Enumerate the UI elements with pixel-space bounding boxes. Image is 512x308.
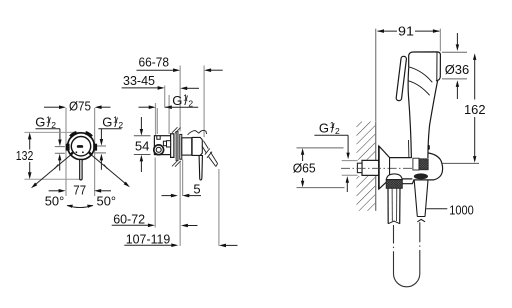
lever handle (front view, pointing down) [80,159,82,180]
left cone [388,188,400,223]
tick on left diagonal [55,164,59,168]
spray plate [396,56,407,101]
svg-text:91: 91 [398,23,414,38]
black tabs on circle [80,145,82,147]
handle left edge [408,68,411,158]
svg-text:162: 162 [464,102,486,117]
svg-text:54: 54 [135,138,150,153]
label G1/2 upper-left [35,114,61,146]
svg-text:132: 132 [16,148,34,163]
svg-text:5: 5 [193,182,200,197]
gray extension lines [155,66,219,247]
svg-text:107-119: 107-119 [126,232,171,247]
small wedges at diagonal roots [71,152,73,155]
holder arm body fill [390,156,443,183]
dimension 91 [375,29,377,122]
phantom lever swung position [202,141,218,167]
mixer escutcheon outer circle [68,133,95,160]
diagonal 50-degree lines [34,155,71,186]
dimension O75 [44,106,111,108]
two small dots [76,151,78,153]
black side ports [66,144,70,151]
head outline [409,52,441,81]
wall hatch [357,122,376,160]
hose nut with dome [386,174,402,180]
dimension 162 [474,60,476,100]
port tick marks left [55,146,106,153]
holder arm edges [390,153,443,184]
wall surface line [375,122,377,211]
dark lens under holder [414,173,428,179]
svg-text:Ø75: Ø75 [69,98,91,113]
wall hatch marks above plate [172,127,181,167]
handle right edge [428,80,438,158]
label G1/2 right view [319,120,340,136]
dimension O65 [297,148,345,188]
handle cap [192,137,202,155]
port arrows up (below) [58,154,61,161]
center dash on cap [77,145,83,148]
svg-text:50°: 50° [97,194,117,209]
holder step block [413,158,419,170]
dimension 77 [49,190,111,192]
gray stubs to pipe [342,161,358,176]
outlet flange [379,146,390,189]
in-wall supply pipe [362,160,379,175]
50 degree arc with arrows [67,206,92,208]
label G1/2 upper-right [98,114,123,145]
holder knurl [419,159,428,170]
centerline [341,167,413,169]
tick on right diagonal [104,164,108,168]
shower silhouette (head + handle) [408,52,440,158]
svg-text:Ø65: Ø65 [293,160,316,175]
svg-text:Ø36: Ø36 [445,62,470,77]
svg-text:77: 77 [73,183,86,198]
svg-text:33-45: 33-45 [123,73,155,88]
extension line right of O75/77 [94,108,96,196]
dimension 132 [24,132,79,179]
dimension O36 [456,33,458,45]
svg-text:60-72: 60-72 [113,212,145,227]
wall plate [176,131,178,160]
label 1000 [426,208,447,210]
lever side view pointing down [199,156,202,181]
inner circle (cap) [71,137,90,156]
escutcheon side view [180,134,182,159]
dimension 5 [162,195,172,197]
valve body cylinder [182,138,192,155]
rough-in valve body [154,134,174,158]
hose U-bend [394,222,420,287]
head end cap line [436,52,438,80]
neck curves [409,67,433,83]
dimension 54 [134,136,151,155]
right cone to hose [414,180,428,222]
clip notch [428,145,430,150]
svg-text:1000: 1000 [449,203,474,218]
label G1/2 middle with arrows [139,106,150,108]
phantom lever up position [188,131,199,135]
svg-text:50°: 50° [45,194,65,209]
handle inner edge line [408,140,410,158]
extension line left of O75/77 [65,108,67,196]
svg-text:66-78: 66-78 [139,55,170,70]
